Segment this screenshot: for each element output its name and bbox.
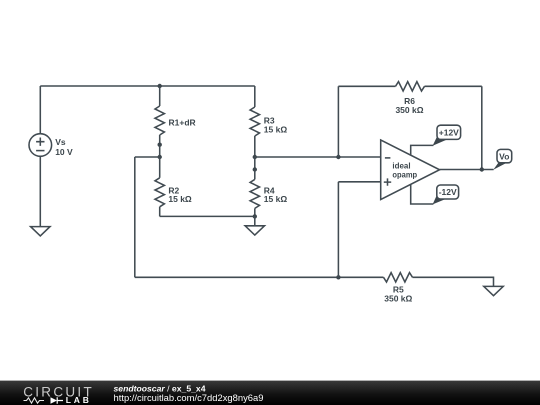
svg-text:http://circuitlab.com/c7dd2xg8: http://circuitlab.com/c7dd2xg8ny6a9 (114, 393, 264, 403)
wire mid-left tap (135, 156, 160, 158)
flag +12V (433, 125, 461, 146)
wire Vs bottom lead (39, 156, 41, 226)
flag -12V (433, 185, 459, 204)
svg-text:15 kΩ: 15 kΩ (168, 194, 192, 204)
node mid-right (253, 155, 257, 159)
wire noninverting vertical (337, 182, 339, 277)
wire top rail (40, 85, 255, 87)
svg-text:-12V: -12V (439, 187, 457, 197)
flag Vo (493, 149, 511, 169)
node bottom rail (253, 214, 257, 218)
wire mid-right segment (254, 157, 256, 170)
wire positive supply pin (411, 145, 434, 155)
logo diode (51, 397, 64, 403)
resistor R5 (384, 273, 413, 282)
label R3 value (264, 116, 288, 135)
node top rail / R1 junction (158, 84, 162, 88)
wire feedback top right (425, 85, 482, 87)
svg-text:350 kΩ: 350 kΩ (384, 293, 412, 303)
wire bottom bridge rail (160, 215, 255, 217)
voltage source Vs (29, 134, 52, 157)
label R4 value (264, 185, 288, 204)
resistor R2 (155, 157, 164, 216)
svg-text:15 kΩ: 15 kΩ (264, 194, 288, 204)
resistor R6 (396, 82, 425, 91)
node mid-left (158, 155, 162, 159)
svg-text:350 kΩ: 350 kΩ (395, 105, 423, 115)
svg-text:+12V: +12V (439, 128, 459, 138)
label R6 value (395, 96, 423, 115)
wire left vertical (134, 157, 136, 277)
ground GND1 (31, 227, 50, 236)
wire noninverting horizontal (338, 181, 380, 183)
wire negative supply pin (411, 184, 434, 204)
ground GND3 (484, 286, 503, 295)
wire output (440, 169, 494, 171)
svg-text:opamp: opamp (392, 170, 417, 180)
label Vs value (55, 137, 73, 157)
svg-text:10 V: 10 V (55, 147, 73, 157)
svg-text:R1+dR: R1+dR (169, 118, 196, 128)
resistor R4 (250, 170, 259, 217)
wire Vs top lead (39, 86, 41, 134)
resistor R1 (155, 86, 164, 145)
resistor R3 (250, 86, 259, 157)
wire feedback right vertical (481, 86, 483, 169)
op-amp U1 (381, 140, 440, 200)
svg-text:LAB: LAB (66, 395, 92, 405)
node R4 top (253, 167, 257, 171)
svg-text:Vs: Vs (55, 137, 66, 147)
node feedback tap (336, 155, 340, 159)
wire bottom horizontal to R5 (135, 276, 384, 278)
wire feedback top left (338, 85, 395, 87)
wire R1 to mid-left node (159, 145, 161, 157)
wire R5 to ground (413, 277, 494, 286)
svg-text:Vo: Vo (499, 152, 509, 162)
svg-text:15 kΩ: 15 kΩ (264, 124, 288, 134)
wire inverting input (255, 156, 381, 158)
footer bar (0, 381, 540, 405)
node R1 bottom (158, 143, 162, 147)
logo resistor squiggle (24, 398, 45, 403)
node noninverting tap (336, 275, 340, 279)
node output (480, 167, 484, 171)
ground GND2 (245, 226, 264, 235)
label R2 value (168, 185, 192, 204)
label R5 value (384, 285, 412, 304)
wire ground stem (254, 216, 256, 225)
wire feedback left vertical (337, 86, 339, 157)
